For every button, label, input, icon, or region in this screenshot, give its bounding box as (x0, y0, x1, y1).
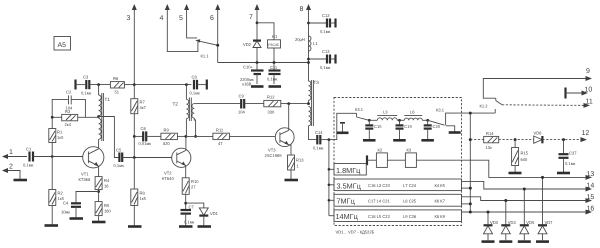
ground under R2 (45, 224, 59, 227)
svg-text:C14: C14 (315, 130, 323, 135)
ground under VD5 (518, 240, 531, 243)
note VD1...VD7 type (336, 230, 375, 235)
node R6/R7/pin3 (133, 83, 136, 86)
ground under VD3 (482, 240, 495, 243)
ground under VD1 (198, 225, 212, 228)
pin 1 input arrow (2, 149, 27, 159)
svg-text:C9: C9 (239, 94, 245, 99)
capacitor C1 (23, 147, 52, 168)
svg-text:L7 C24: L7 C24 (403, 183, 417, 188)
svg-text:VD1: VD1 (210, 211, 219, 216)
svg-text:C16 L3 C20: C16 L3 C20 (368, 183, 391, 188)
svg-text:0,01мк: 0,01мк (139, 141, 152, 146)
svg-text:0,1мк: 0,1мк (23, 163, 34, 168)
capacitor C23 (424, 120, 441, 139)
lamp H1 (268, 34, 281, 71)
ground under VD4 (499, 240, 512, 243)
ground under R8 (128, 225, 142, 228)
node VT3 collector (287, 102, 290, 105)
ground under C15 (363, 139, 376, 142)
svg-text:C4: C4 (63, 201, 69, 206)
svg-text:R12: R12 (267, 95, 275, 100)
wire filter output (462, 112, 496, 114)
svg-text:L1: L1 (313, 41, 318, 46)
svg-text:R6: R6 (113, 76, 119, 81)
svg-text:КТ368: КТ368 (79, 177, 91, 182)
bus 13 (462, 160, 595, 180)
node T1 top (97, 83, 100, 86)
svg-text:13: 13 (587, 171, 595, 178)
wire band bus left (328, 140, 330, 216)
svg-text:C17 L4 C21: C17 L4 C21 (368, 199, 391, 204)
transformer T1 winding lower (99, 119, 102, 149)
svg-text:0,1мк: 0,1мк (184, 220, 195, 225)
svg-text:R1: R1 (57, 130, 63, 135)
resistor R6 (110, 76, 134, 95)
svg-text:T1: T1 (105, 97, 111, 102)
wire base VT1 (52, 156, 88, 158)
capacitor C4 (61, 192, 99, 218)
svg-text:C12: C12 (322, 13, 330, 18)
node R10 bottom (184, 202, 187, 205)
svg-text:7МГц: 7МГц (337, 197, 356, 206)
capacitor C14 (313, 130, 334, 151)
switch K3.1 left (355, 107, 369, 120)
node C15 (368, 119, 371, 122)
svg-text:10мк: 10мк (61, 210, 70, 215)
diode VD4 (501, 199, 516, 240)
ground under R15 (509, 172, 522, 175)
resistor R11 (186, 128, 280, 146)
svg-text:R14: R14 (486, 131, 494, 136)
svg-text:VD5: VD5 (526, 220, 535, 225)
svg-text:16: 16 (587, 206, 595, 213)
svg-text:К3.1: К3.1 (436, 108, 445, 113)
svg-text:L9 C26: L9 C26 (403, 214, 417, 219)
svg-text:0,1мк: 0,1мк (190, 91, 201, 96)
terminal bar left of C3 (76, 80, 86, 90)
capacitor C6 (134, 126, 161, 146)
svg-text:К1.1: К1.1 (201, 54, 210, 59)
wire common vertical (469, 113, 471, 212)
ground under right contact (449, 131, 461, 134)
svg-text:640: 640 (521, 157, 529, 162)
relay K1.2 blade (480, 98, 503, 108)
svg-text:К3.1: К3.1 (355, 107, 364, 112)
svg-text:3: 3 (127, 15, 131, 22)
resistor R1 (49, 117, 64, 156)
svg-text:15: 15 (587, 194, 595, 201)
node R7 bottom (133, 135, 136, 138)
svg-text:R9: R9 (164, 128, 170, 133)
contact to ground right (446, 126, 455, 132)
svg-text:L8 C25: L8 C25 (403, 199, 417, 204)
pin 4 arrow (160, 4, 198, 52)
pin 11 arrow dashed (502, 99, 593, 108)
node T1 tap (97, 115, 100, 118)
svg-text:0,1мк: 0,1мк (320, 65, 331, 70)
svg-text:7: 7 (249, 14, 253, 21)
node filter input (328, 138, 331, 141)
relay K1.2 lower contact (494, 109, 496, 113)
pin 12 arrow dashed (542, 130, 589, 142)
svg-text:VD7: VD7 (545, 220, 554, 225)
svg-text:R7: R7 (140, 100, 146, 105)
diode VD5 (520, 188, 535, 241)
wire +supply rail (218, 62, 309, 64)
node base VT1 (51, 155, 54, 158)
svg-text:1к5: 1к5 (140, 196, 147, 201)
svg-text:T3: T3 (314, 80, 320, 85)
relay K2 (376, 148, 405, 168)
bus 16 (462, 206, 595, 215)
node C37 (562, 138, 565, 141)
pin 6 arrow (210, 4, 220, 63)
wire T1 tap to C5 (99, 117, 120, 158)
capacitor C5 (114, 148, 175, 169)
svg-text:1.8МГц: 1.8МГц (336, 166, 361, 175)
resistor R2 (49, 157, 65, 225)
svg-text:VD3: VD3 (490, 220, 499, 225)
svg-text:VD1... VD7 - КД522Б: VD1... VD7 - КД522Б (336, 230, 375, 235)
svg-text:16: 16 (104, 184, 109, 189)
capacitor C8 (190, 75, 207, 96)
node H1 rail (273, 61, 276, 64)
svg-text:Р3С45: Р3С45 (268, 43, 278, 47)
ground under R13 (285, 179, 299, 182)
ground under VD7 (536, 240, 549, 243)
wire stub to 1.8 row (328, 168, 334, 171)
svg-text:9: 9 (586, 68, 590, 75)
ground under R5 (92, 221, 106, 224)
svg-text:К3: К3 (407, 148, 412, 153)
ground under C7 (179, 225, 193, 228)
svg-text:R15: R15 (521, 151, 529, 156)
transformer T3 core (312, 80, 314, 126)
svg-text:T2: T2 (173, 102, 179, 107)
terminal bar K2 row (367, 155, 376, 165)
filter bank module box (334, 98, 462, 226)
svg-text:VD4: VD4 (508, 220, 517, 225)
node R14 tap (469, 138, 472, 141)
capacitor C10 electrolytic (240, 65, 264, 87)
wire stub to 14 row (329, 215, 334, 217)
node K1.1 common (216, 44, 219, 47)
svg-text:0,1мк: 0,1мк (114, 163, 125, 168)
A5 module designator box (54, 37, 71, 51)
band row 3.5MHz (334, 179, 462, 191)
pin 7 arrow (249, 4, 260, 40)
svg-text:C20: C20 (433, 124, 441, 129)
svg-text:VT1: VT1 (81, 172, 89, 177)
transformer T2 core (189, 98, 191, 122)
node T2 right bottom (194, 135, 197, 138)
resistor R14 (470, 131, 498, 150)
capacitor C11 (267, 65, 281, 84)
svg-text:х16В: х16В (242, 82, 252, 87)
relay contact K1.1 blade (195, 39, 217, 58)
capacitor C37 (559, 140, 578, 172)
svg-text:4: 4 (160, 15, 164, 22)
svg-text:2к4: 2к4 (65, 122, 72, 127)
svg-text:C37: C37 (569, 151, 577, 156)
svg-text:160: 160 (104, 209, 112, 214)
wire R14 to VD6 (499, 139, 534, 141)
diode VD7 (538, 176, 553, 240)
wire stub to 7 row (328, 199, 334, 202)
node C19 (398, 119, 401, 122)
resistor R15 (512, 140, 529, 172)
svg-text:C1: C1 (26, 147, 32, 152)
transistor VT2 KT640 (162, 148, 191, 181)
wire stub to 3.5 row (328, 184, 334, 187)
svg-text:VT3: VT3 (268, 148, 276, 153)
terminal bar right of C8 (206, 80, 208, 90)
wire VT2 collector (185, 136, 187, 150)
node VT2 collector (185, 135, 188, 138)
svg-text:0,1мк: 0,1мк (320, 29, 331, 34)
svg-text:14МГц: 14МГц (336, 212, 359, 221)
diode VD3 (484, 211, 499, 241)
ground under C10 (251, 85, 264, 88)
svg-text:0,1мк: 0,1мк (313, 146, 324, 151)
resistor R9 (161, 128, 187, 146)
relay K3 (405, 148, 461, 168)
band row 1.8MHz (334, 164, 366, 176)
svg-text:8: 8 (300, 6, 304, 13)
svg-text:R4: R4 (104, 178, 110, 183)
diode VD6 (534, 131, 543, 144)
wire collector rail y=103.6 (197, 103, 241, 105)
ground under C37 (557, 172, 570, 175)
svg-text:330: 330 (268, 110, 276, 115)
svg-text:47: 47 (218, 141, 223, 146)
inductor L3 (369, 110, 404, 121)
svg-text:R8: R8 (140, 191, 146, 196)
diode VD1 (186, 203, 219, 225)
transformer T2 winding left (173, 85, 189, 137)
svg-text:1: 1 (297, 164, 300, 169)
svg-text:L6: L6 (410, 110, 415, 115)
transformer T1 core (102, 93, 104, 141)
wire stub row3 to common (462, 202, 472, 205)
transistor VT3 2SC1969 (265, 128, 295, 158)
svg-text:C13: C13 (322, 49, 330, 54)
capacitor C15 (365, 120, 382, 139)
svg-text:R3: R3 (65, 109, 71, 114)
transformer T1 winding upper (99, 85, 111, 116)
svg-text:К2: К2 (378, 148, 383, 153)
resistor R5 (95, 202, 111, 221)
svg-text:0,1мк: 0,1мк (81, 91, 92, 96)
svg-text:4к7: 4к7 (140, 105, 147, 110)
node T2 top / C8 (185, 83, 188, 86)
inductor L1 (295, 36, 318, 51)
svg-text:VT2: VT2 (164, 171, 172, 176)
capacitor C7 (181, 205, 195, 226)
svg-text:R13: R13 (296, 158, 304, 163)
contact to ground left (340, 123, 345, 132)
svg-text:H1: H1 (272, 34, 278, 39)
svg-text:5: 5 (179, 15, 183, 22)
ground at pin 2 (14, 179, 28, 182)
wire filter input riser (334, 113, 357, 139)
svg-text:C3: C3 (83, 75, 89, 80)
svg-text:51: 51 (115, 90, 120, 95)
svg-text:20μН: 20μН (295, 37, 305, 42)
wire rail to T2 (134, 84, 191, 86)
resistor R8 (131, 158, 147, 226)
node C12 (307, 22, 310, 25)
svg-text:VD6: VD6 (534, 131, 543, 136)
wire to H1 (257, 23, 274, 40)
svg-text:14: 14 (587, 183, 595, 190)
band row 7MHz (334, 194, 462, 206)
pin 5 arrow (179, 4, 197, 38)
node R4 bottom (97, 190, 100, 193)
svg-text:27: 27 (191, 185, 196, 190)
node VD2 rail (256, 61, 259, 64)
svg-text:КТ640: КТ640 (162, 176, 174, 181)
capacitor C3 (81, 75, 110, 96)
pin 2 input arrow (2, 164, 20, 180)
svg-text:2: 2 (9, 164, 13, 171)
svg-text:C15: C15 (374, 124, 382, 129)
svg-text:2SC1969: 2SC1969 (265, 153, 283, 158)
resistor R13 (288, 145, 305, 179)
svg-text:C2: C2 (66, 90, 72, 95)
capacitor C2 (feedback) (52, 90, 85, 118)
resistor R10 (182, 166, 199, 211)
node T3 / rail (307, 102, 310, 105)
resistor R3 (52, 109, 98, 127)
node R15 (514, 138, 517, 141)
capacitor C9 (238, 94, 264, 115)
svg-text:10: 10 (585, 87, 593, 94)
svg-text:R10: R10 (191, 179, 199, 184)
ground under C11 (269, 85, 282, 88)
capacitor C19 (396, 120, 413, 139)
svg-text:C7: C7 (189, 205, 195, 210)
bus 15 (462, 194, 595, 203)
ground under C19 (393, 139, 406, 142)
switch K3.1 right (428, 108, 462, 126)
svg-text:C19: C19 (404, 124, 412, 129)
diode VD2 (243, 41, 261, 71)
ground under C23 (421, 139, 434, 142)
transformer T2 winding right (192, 104, 197, 137)
node output / bus (469, 112, 472, 115)
band row 14MHz (334, 210, 462, 222)
wire VT3 collector (288, 104, 290, 131)
svg-text:A5: A5 (58, 42, 67, 49)
svg-text:К4 К5: К4 К5 (435, 183, 446, 188)
svg-text:R11: R11 (216, 128, 224, 133)
ground under C4 (70, 217, 84, 220)
node C13 (307, 58, 310, 61)
svg-text:11: 11 (586, 99, 593, 106)
resistor R7 (131, 85, 147, 158)
inductor L6 (404, 110, 427, 121)
transformer T3 primary (309, 80, 320, 104)
svg-text:К1.2: К1.2 (480, 104, 489, 109)
node pin7/H1 (256, 21, 259, 24)
svg-text:L3: L3 (383, 110, 388, 115)
svg-text:C18 L5 C22: C18 L5 C22 (368, 214, 391, 219)
svg-text:12: 12 (582, 130, 590, 137)
svg-text:0,1мк: 0,1мк (565, 161, 576, 166)
capacitor C12 (309, 13, 336, 34)
pin 9 arrow (483, 68, 592, 98)
svg-text:1: 1 (9, 149, 13, 156)
svg-text:0,1мк: 0,1мк (267, 77, 278, 82)
svg-text:VD2: VD2 (243, 42, 252, 47)
svg-text:К6 К7: К6 К7 (435, 199, 446, 204)
svg-text:C8: C8 (192, 75, 198, 80)
svg-text:C11: C11 (270, 65, 278, 70)
svg-text:1к5: 1к5 (57, 135, 64, 140)
pin 8 arrow (300, 4, 312, 81)
transformer T3 secondary (309, 107, 317, 140)
transistor VT1 KT368 (79, 147, 104, 182)
svg-text:C10+: C10+ (243, 65, 254, 70)
svg-text:R2: R2 (58, 191, 64, 196)
svg-text:820: 820 (163, 141, 171, 146)
node C23 (426, 119, 429, 122)
wire stub row2 to common (462, 187, 472, 190)
capacitor C13 (309, 49, 336, 70)
node R3/C2 left (51, 116, 54, 119)
svg-text:C5: C5 (116, 148, 122, 153)
svg-text:104: 104 (238, 110, 246, 115)
resistor R4 (95, 166, 110, 201)
node supply rail / chain (307, 61, 310, 64)
ground under left contact (337, 132, 349, 135)
svg-text:R5: R5 (104, 203, 110, 208)
resistor R12 (264, 95, 309, 115)
pin 10 terminal (566, 87, 593, 99)
svg-text:C6: C6 (141, 126, 147, 131)
pin 3 arrow (127, 4, 137, 85)
svg-text:13к: 13к (486, 145, 493, 150)
bus 14 (462, 181, 595, 191)
svg-text:3.5МГц: 3.5МГц (337, 181, 362, 190)
svg-text:6: 6 (210, 15, 214, 22)
node C5 / R8 bias (133, 156, 136, 159)
svg-text:К8 К9: К8 К9 (435, 214, 446, 219)
